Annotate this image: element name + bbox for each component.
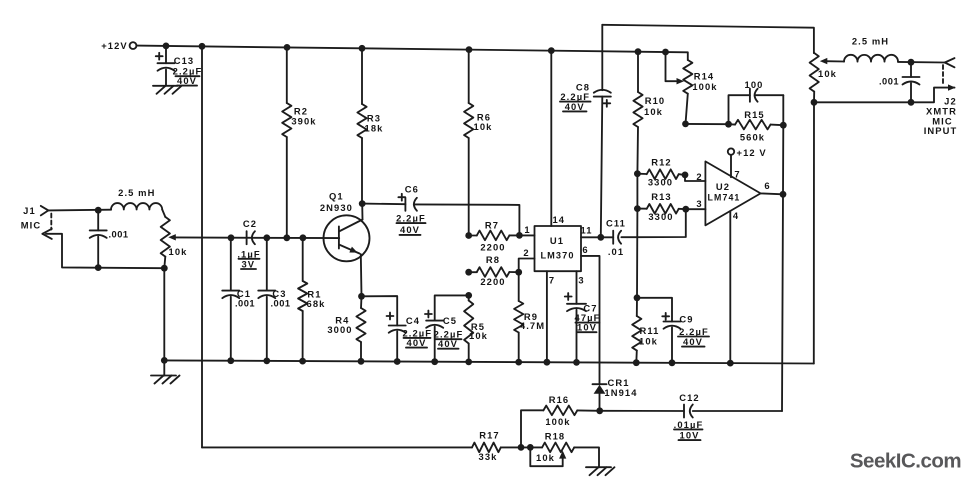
junction on ground rail (C3) — [263, 358, 270, 365]
wire output vertical — [782, 95, 783, 411]
capacitor C7 47uF 10V on pin 3 — [565, 271, 601, 362]
svg-text:R10: R10 — [645, 95, 666, 106]
svg-text:2: 2 — [523, 247, 529, 258]
wire U1 pin 11 — [580, 225, 600, 238]
svg-text:14: 14 — [552, 214, 565, 225]
watermark SeekIC.com — [850, 449, 961, 472]
junction on +12V rail (U1 pin14) — [548, 47, 555, 54]
junction R13 left — [634, 205, 641, 212]
junction R8 right / U1 pin2 / R9 — [515, 269, 522, 276]
svg-text:C13: C13 — [174, 55, 195, 66]
svg-text:3300: 3300 — [648, 211, 673, 222]
svg-text:68k: 68k — [307, 298, 326, 309]
wire R18 right to ground — [574, 447, 599, 467]
junction C5/R5 top — [465, 292, 472, 299]
svg-text:10k: 10k — [169, 246, 188, 257]
resistor R8 2200 — [469, 254, 519, 287]
resistor R15 560k — [729, 109, 784, 142]
svg-text:10k: 10k — [474, 121, 493, 132]
junction U2 output — [780, 191, 787, 198]
svg-text:C11: C11 — [606, 218, 626, 229]
svg-text:U1: U1 — [550, 235, 564, 246]
junction on base line (C3) — [263, 234, 270, 241]
junction on ground rail (U2 pin4) — [727, 360, 734, 367]
wire inductor to J2 — [898, 61, 945, 64]
svg-text:J1: J1 — [23, 205, 36, 216]
svg-text:C5: C5 — [443, 315, 457, 326]
svg-text:C4: C4 — [406, 315, 420, 326]
junction R12 right / R14 bottom — [682, 172, 689, 179]
resistor R16 100k — [521, 394, 600, 447]
junction Q1 collector / C6 — [359, 200, 366, 207]
svg-text:100k: 100k — [545, 416, 570, 427]
wire J2 lower return — [814, 88, 955, 103]
svg-text:C2: C2 — [243, 218, 257, 229]
wire U1 pin 14 — [551, 51, 565, 226]
svg-text:2.5 mH: 2.5 mH — [852, 35, 889, 46]
transistor Q1 2N930 — [320, 190, 370, 261]
svg-text:R13: R13 — [651, 191, 672, 202]
svg-text:2N930: 2N930 — [320, 202, 353, 213]
svg-text:C6: C6 — [405, 184, 419, 195]
svg-text:R8: R8 — [486, 254, 500, 265]
svg-text:3: 3 — [578, 274, 584, 285]
junction Q1 emitter node — [358, 293, 365, 300]
power +12V at U2 pin 7 — [728, 147, 767, 180]
svg-text:.01µF: .01µF — [674, 419, 704, 430]
capacitor C2 .1uF 3V — [237, 218, 260, 269]
svg-text:C3: C3 — [272, 288, 286, 299]
resistor R10 10k — [633, 52, 665, 174]
ground at C13 — [153, 86, 182, 94]
wire pot bottom to ground rail — [163, 268, 165, 360]
junction on ground rail (R5) — [465, 359, 472, 366]
svg-text:.001: .001 — [108, 230, 128, 240]
capacitor C12 .01uF 10V — [600, 392, 782, 441]
svg-text:7: 7 — [734, 169, 740, 180]
svg-text:R15: R15 — [744, 109, 765, 120]
connector J1 MIC — [21, 205, 52, 239]
junction on +12V rail (R2) — [284, 44, 291, 51]
junction R11 top — [634, 294, 641, 301]
junction R15 right / 100pF right — [780, 122, 787, 129]
svg-text:INPUT: INPUT — [924, 125, 958, 136]
svg-text:4.7M: 4.7M — [520, 320, 545, 331]
resistor R5 10k — [464, 295, 488, 362]
svg-text:10k: 10k — [644, 106, 663, 117]
wire bottom ground rail — [164, 360, 814, 363]
svg-text:40V: 40V — [438, 338, 458, 349]
resistor R6 10k — [464, 50, 492, 236]
junction 100pF left — [725, 121, 732, 128]
op-amp U2 LM741 — [705, 161, 760, 225]
svg-text:R12: R12 — [651, 156, 672, 167]
svg-text:3V: 3V — [241, 258, 255, 269]
wire R17-R18 link — [521, 446, 530, 448]
junction U1 pin11 / C8 — [597, 234, 604, 241]
svg-text:2: 2 — [696, 171, 702, 182]
capacitor C6 2.2uF 40V — [362, 184, 519, 236]
svg-text:Q1: Q1 — [329, 190, 344, 201]
svg-text:10k: 10k — [818, 68, 837, 79]
svg-text:3000: 3000 — [327, 324, 352, 335]
junction on +12V rail (R14 wiper) — [662, 49, 669, 56]
junction .001 top — [95, 207, 102, 214]
svg-text:2.2µF: 2.2µF — [396, 212, 426, 223]
capacitor C4 2.2uF 40V — [362, 296, 433, 361]
junction R8 left — [465, 269, 472, 276]
wire R14/R15 node — [686, 123, 729, 125]
wire J1 lower arm — [46, 234, 164, 268]
svg-text:40V: 40V — [683, 336, 703, 347]
wire +12V rail — [136, 46, 687, 53]
svg-text:2200: 2200 — [480, 276, 505, 287]
power terminal +12V — [101, 40, 136, 51]
wire top feedback line — [602, 25, 814, 53]
junction R7 left — [465, 232, 472, 239]
svg-text:.001: .001 — [235, 299, 255, 309]
svg-text:.001: .001 — [879, 77, 899, 87]
svg-text:R17: R17 — [479, 429, 500, 440]
svg-text:C12: C12 — [679, 392, 700, 403]
capacitor C11 .01 — [601, 209, 686, 257]
svg-text:LM370: LM370 — [540, 251, 574, 261]
resistor R7 2200 — [469, 219, 520, 252]
wire U2 output pin 6 — [761, 180, 783, 195]
junction on +12V rail (R3) — [359, 45, 366, 52]
inductor 2.5mH (output) — [844, 35, 898, 61]
svg-text:U2: U2 — [716, 181, 730, 192]
wire U1 pin 2 — [519, 247, 535, 272]
junction on base line (R1) — [300, 234, 307, 241]
junction R12 left — [634, 170, 641, 177]
resistor R12 3300 — [637, 156, 685, 187]
svg-text:R16: R16 — [549, 394, 570, 405]
svg-text:+12 V: +12 V — [737, 147, 767, 158]
resistor R13 3300 — [637, 191, 685, 222]
svg-text:C9: C9 — [679, 314, 693, 325]
junction R7 right / U1 pin1 — [516, 232, 523, 239]
junction on ground rail (C1) — [227, 357, 234, 364]
svg-text:.01: .01 — [608, 246, 624, 257]
svg-text:.001: .001 — [270, 299, 290, 309]
junction on base line (C1) — [228, 234, 235, 241]
ground at R18 — [586, 467, 615, 475]
svg-text:3: 3 — [696, 198, 702, 209]
wire Q1 emitter — [360, 254, 363, 296]
svg-text:560k: 560k — [740, 131, 765, 142]
svg-text:2.5 mH: 2.5 mH — [118, 187, 155, 198]
wire U2 pin 3 — [686, 198, 706, 209]
resistor R11 10k — [632, 298, 659, 363]
capacitor C5 2.2uF 40V — [425, 295, 469, 361]
wire Q1 collector — [361, 204, 363, 220]
wire U1 pin 7 — [547, 271, 555, 362]
svg-text:R14: R14 — [694, 70, 715, 81]
resistor R1 68k — [298, 238, 325, 361]
junction on base line (R2) — [283, 234, 290, 241]
svg-text:33k: 33k — [479, 451, 498, 462]
wire U2 pin 2 — [685, 171, 705, 182]
svg-text:10k: 10k — [469, 330, 488, 341]
wire left drop from +12V to R17 line — [201, 46, 203, 447]
svg-text:MIC: MIC — [21, 220, 42, 231]
potentiometer 10k (output level) — [810, 53, 844, 102]
junction ground-rail left end — [161, 357, 168, 364]
svg-text:C1: C1 — [237, 288, 251, 299]
svg-text:40V: 40V — [407, 337, 427, 348]
potentiometer R18 10k — [530, 430, 574, 466]
junction CR1 / R16 / C12 — [596, 407, 603, 414]
svg-text:100: 100 — [745, 79, 764, 90]
svg-text:10k: 10k — [639, 335, 658, 346]
junction on ground rail (C9) — [669, 359, 676, 366]
svg-text:R7: R7 — [485, 219, 499, 230]
junction on ground rail (R11) — [633, 359, 640, 366]
connector J2 XMTR MIC INPUT — [924, 58, 958, 136]
svg-text:40V: 40V — [177, 75, 197, 86]
wire J1 to inductor — [48, 209, 111, 212]
wire base line (wiper to Q1 base) — [231, 237, 339, 239]
junction on ground rail (C7) — [573, 359, 580, 366]
wire R12-R13 left link — [636, 174, 638, 209]
svg-text:2200: 2200 — [480, 242, 505, 253]
junction on +12V rail (R10) — [635, 48, 642, 55]
ground at input — [151, 360, 180, 383]
svg-text:SeekIC.com: SeekIC.com — [850, 449, 961, 472]
wire R13-left to R11 top (crosses C11 line) — [636, 209, 638, 298]
svg-text:+12V: +12V — [101, 40, 128, 51]
inductor 2.5mH (input) — [111, 187, 165, 217]
svg-text:7: 7 — [549, 274, 555, 285]
junction R14 bottom / R15 left — [682, 121, 689, 128]
junction pot bottom — [161, 265, 168, 272]
resistor R9 4.7M — [514, 272, 545, 362]
svg-text:10V: 10V — [577, 322, 597, 333]
junction R13 right / U2 pin3 — [682, 206, 689, 213]
svg-text:4: 4 — [733, 210, 739, 221]
resistor R2 390k — [282, 47, 316, 237]
junction on ground rail (C5) — [431, 358, 438, 365]
resistor R3 18k — [357, 48, 383, 203]
junction on +12V rail (R6) — [466, 46, 473, 53]
junction .001 bottom (J2) — [908, 99, 915, 106]
wire U2 pin 4 to ground rail — [730, 210, 739, 363]
svg-text:3300: 3300 — [648, 176, 673, 187]
junction on +12V rail (left drop) — [199, 43, 206, 50]
junction .001 top (J2) — [908, 59, 915, 66]
svg-text:10V: 10V — [680, 430, 700, 441]
op-amp U1 LM370 — [535, 226, 582, 271]
diode CR1 1N914 — [593, 377, 638, 411]
capacitor C13 — [156, 46, 203, 86]
junction on ground rail (R9) — [515, 359, 522, 366]
svg-text:R18: R18 — [545, 430, 566, 441]
svg-text:6: 6 — [764, 180, 770, 191]
svg-text:1N914: 1N914 — [604, 387, 637, 398]
junction R17 right — [518, 444, 525, 451]
capacitor C9 2.2uF 40V — [637, 298, 709, 363]
svg-text:18k: 18k — [365, 123, 384, 134]
junction on ground rail (C4) — [394, 358, 401, 365]
capacitor .001 (J1) — [90, 210, 129, 267]
svg-text:10k: 10k — [536, 452, 555, 463]
svg-text:LM741: LM741 — [708, 192, 741, 202]
svg-text:1: 1 — [524, 224, 530, 235]
junction .001 bottom — [95, 264, 102, 271]
junction on +12V rail (C13) — [163, 43, 170, 50]
junction on ground rail (U1 pin7) — [544, 359, 551, 366]
capacitor C1 .001 — [222, 238, 255, 361]
svg-text:6: 6 — [582, 244, 588, 255]
wire U1 pin 6 to CR1 — [581, 244, 600, 384]
capacitor C8 2.2uF 40V — [560, 25, 611, 238]
potentiometer 10k (input level) — [161, 217, 231, 268]
svg-text:100k: 100k — [692, 81, 717, 92]
junction R18 left — [527, 444, 534, 451]
junction on ground rail (R4) — [358, 358, 365, 365]
resistor R4 3000 — [327, 296, 365, 361]
svg-text:40V: 40V — [400, 224, 420, 235]
capacitor .001 (J2) — [879, 62, 920, 102]
capacitor 100 (feedback) — [729, 79, 784, 124]
svg-text:11: 11 — [580, 225, 592, 236]
junction on ground rail (R1) — [299, 358, 306, 365]
wire U1 pin 1 — [519, 224, 534, 236]
resistor R17 33k — [202, 429, 521, 462]
capacitor C3 .001 — [258, 238, 290, 361]
rheostat R14 100k — [666, 52, 718, 124]
svg-text:40V: 40V — [565, 101, 585, 112]
wire right vertical (pot2 bottom to ground rail) — [813, 102, 815, 363]
svg-text:390k: 390k — [291, 116, 316, 127]
junction pot2 bottom — [811, 99, 818, 106]
